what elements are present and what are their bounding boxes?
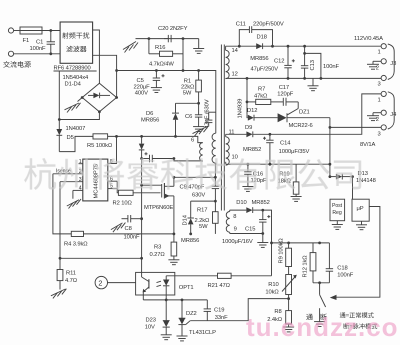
label mode on	[340, 312, 374, 318]
capacitor C17	[283, 98, 298, 106]
svg-text:R5 100kΩ: R5 100kΩ	[87, 143, 113, 149]
wire pin9	[230, 233, 263, 235]
resistor R9	[286, 243, 292, 275]
svg-text:tu.cndzz.com: tu.cndzz.com	[246, 312, 400, 342]
wire	[14, 30, 20, 32]
svg-text:R4 3.9kΩ: R4 3.9kΩ	[64, 242, 88, 248]
svg-text:MR856: MR856	[141, 117, 159, 123]
svg-text:2: 2	[376, 66, 379, 72]
svg-text:R10: R10	[268, 282, 278, 288]
capacitor C11	[239, 26, 272, 46]
node vcc bottom	[140, 257, 143, 260]
svg-text:4.7Ω: 4.7Ω	[65, 278, 78, 284]
connector J4 pin2 ground	[367, 110, 386, 123]
capacitor C12	[284, 46, 295, 78]
svg-text:D1-D4: D1-D4	[65, 82, 82, 88]
wire box top out	[93, 30, 100, 83]
optocoupler OPT1	[136, 272, 175, 300]
diode D14 MR856	[188, 201, 216, 234]
connector J4 pin1	[378, 91, 387, 103]
svg-text:R17: R17	[197, 208, 207, 214]
svg-text:1: 1	[378, 98, 381, 104]
svg-text:100nF: 100nF	[323, 64, 339, 70]
svg-text:3: 3	[79, 177, 82, 183]
connector J3 pin1	[378, 44, 387, 56]
transformer winding 8-9	[226, 210, 229, 233]
svg-text:4: 4	[79, 186, 82, 192]
wire opto bottom bus	[143, 299, 207, 301]
wire 12 rail	[226, 77, 381, 79]
ground R3	[168, 260, 179, 265]
diode D10 MR852	[230, 207, 263, 213]
diode D13 1N4148	[330, 174, 353, 180]
svg-text:C18: C18	[337, 266, 347, 272]
svg-text:F1: F1	[23, 38, 30, 44]
svg-text:R9 100kΩ: R9 100kΩ	[279, 238, 285, 264]
AC input terminal top	[8, 28, 13, 33]
svg-text:C5: C5	[137, 78, 144, 84]
svg-text:5W: 5W	[183, 90, 192, 96]
node divider tap	[287, 297, 290, 300]
svg-text:J3: J3	[390, 61, 396, 67]
wire	[42, 30, 60, 32]
svg-text:33nF: 33nF	[215, 315, 228, 321]
ground Post Reg	[332, 221, 343, 230]
wire main DC rail	[117, 71, 216, 134]
svg-text:10V: 10V	[145, 324, 155, 330]
ground C6	[193, 127, 204, 132]
node C2 right	[173, 157, 176, 160]
resistor R4	[71, 231, 174, 236]
capacitor C16	[244, 164, 251, 186]
svg-text:C6: C6	[185, 114, 192, 120]
svg-text:D10: D10	[236, 200, 246, 206]
node C14 top	[269, 133, 272, 136]
ground DZ2	[177, 336, 188, 341]
capacitor C1	[47, 31, 55, 54]
wire vcc rail	[141, 159, 143, 273]
wire box lower out	[93, 55, 117, 97]
transformer winding aux 6	[200, 143, 203, 162]
svg-text:μP: μP	[357, 206, 364, 212]
svg-text:1N5404x4: 1N5404x4	[63, 75, 90, 81]
node jog	[303, 52, 306, 55]
resistor R1	[196, 71, 202, 104]
wire aux bottom	[174, 159, 203, 161]
ground snubber right	[193, 39, 204, 54]
wire jog	[305, 53, 321, 78]
node D13 right	[351, 175, 354, 178]
svg-text:100nF: 100nF	[124, 234, 140, 240]
capacitor C9	[212, 186, 219, 212]
ground C5	[151, 88, 162, 93]
node D6 rail	[174, 135, 177, 138]
svg-text:MR856: MR856	[181, 238, 199, 244]
svg-text:Reg: Reg	[332, 210, 341, 216]
svg-text:9: 9	[234, 226, 237, 232]
node C15 bottom	[261, 232, 264, 235]
wire D5 to R5	[59, 136, 93, 151]
resistor R19	[293, 164, 299, 196]
node clamp mid	[214, 200, 217, 203]
node D13 left	[329, 175, 332, 178]
pin 3 stub	[60, 177, 83, 183]
svg-text:47nF /630V: 47nF /630V	[205, 99, 211, 128]
svg-text:TL431CLP: TL431CLP	[189, 330, 216, 336]
wire drain to clamp	[174, 176, 216, 178]
label switch on	[306, 314, 313, 320]
IC U1 MC44608P75	[83, 159, 108, 201]
svg-text:8: 8	[233, 214, 236, 220]
svg-text:Isense: Isense	[56, 169, 71, 175]
ground R19	[291, 197, 302, 202]
node 8V tee	[270, 242, 273, 245]
pin 4 ground	[73, 186, 83, 199]
svg-text:C11: C11	[236, 22, 246, 28]
svg-text:J4: J4	[390, 112, 397, 118]
wire 8V to J4 pin1	[270, 94, 381, 134]
node C6 top	[197, 102, 200, 105]
node R12 tee	[318, 242, 321, 245]
svg-text:100nF: 100nF	[337, 273, 353, 279]
node bridge left	[81, 96, 84, 99]
svg-text:10kΩ: 10kΩ	[265, 289, 279, 295]
diode D7	[139, 136, 145, 158]
node bridge right	[115, 96, 118, 99]
svg-text:MR852: MR852	[243, 147, 261, 153]
node D14 bottom	[189, 233, 192, 236]
pin 1 stub	[79, 159, 83, 165]
bridge rectifier D1-D4	[82, 83, 116, 112]
wire rail 136	[108, 136, 203, 142]
svg-text:3: 3	[378, 132, 381, 138]
resistor R5	[93, 134, 108, 139]
wire snubber top	[136, 38, 199, 40]
ground C15	[257, 234, 268, 248]
RF filter box U-RF	[60, 22, 93, 63]
capacitor C14	[263, 134, 274, 164]
wire pin8	[108, 136, 117, 163]
ground R8	[283, 327, 294, 332]
capacitor C20	[164, 35, 171, 42]
svg-text:120pF: 120pF	[277, 91, 293, 97]
svg-text:1N4007: 1N4007	[66, 126, 86, 132]
svg-text:12: 12	[232, 72, 238, 78]
node C5	[155, 69, 158, 72]
svg-text:Post: Post	[332, 203, 343, 209]
capacitor C5	[153, 71, 165, 88]
node D7 top	[140, 135, 143, 138]
svg-text:C19: C19	[214, 307, 224, 313]
ground switch	[314, 314, 325, 327]
wire to uP	[352, 177, 354, 200]
svg-text:D14: D14	[183, 214, 189, 225]
fuse F1	[20, 27, 42, 34]
svg-text:OPT1: OPT1	[179, 285, 194, 291]
node switch top	[318, 281, 321, 284]
zener D23	[163, 300, 170, 335]
node C14 bottom	[269, 163, 272, 166]
svg-text:MR856: MR856	[250, 56, 268, 62]
node drain	[173, 176, 176, 179]
svg-text:47μF/250V: 47μF/250V	[251, 66, 279, 72]
svg-text:2: 2	[98, 279, 102, 288]
svg-text:400V: 400V	[135, 91, 148, 97]
chassis ground at bridge	[65, 98, 83, 113]
svg-text:C12: C12	[274, 59, 284, 65]
svg-text:47kΩ: 47kΩ	[254, 94, 268, 100]
svg-text:C15: C15	[245, 226, 255, 232]
svg-text:3: 3	[378, 82, 381, 88]
wire mode bottom	[313, 282, 329, 284]
node R16 rail	[182, 69, 185, 72]
label mode off	[344, 323, 378, 329]
chassis ground C8	[111, 223, 126, 233]
wire 16V return rail	[226, 163, 330, 165]
svg-text:8V/1A: 8V/1A	[360, 142, 376, 148]
node R11	[59, 257, 62, 260]
transformer winding 14-12	[226, 46, 230, 79]
svg-text:100nF: 100nF	[30, 46, 46, 52]
label AC source	[3, 61, 30, 68]
node C16	[247, 163, 250, 166]
wire D6 to R1	[176, 102, 199, 104]
switch SW mode	[320, 283, 326, 314]
node C1 bottom	[49, 52, 52, 55]
chassis ground R11	[51, 289, 67, 299]
label switch off	[321, 314, 327, 320]
svg-text:C17: C17	[279, 85, 289, 91]
wire gate aux	[142, 184, 162, 186]
svg-text:DZ2: DZ2	[186, 311, 197, 317]
svg-text:6: 6	[191, 138, 194, 144]
svg-text:1: 1	[378, 50, 381, 56]
wire	[14, 53, 61, 55]
svg-text:1: 1	[79, 159, 82, 165]
label RF6 47288900	[54, 66, 97, 72]
svg-text:630V: 630V	[192, 193, 205, 199]
wire ref divider	[190, 299, 288, 321]
wire to J4 pin3	[330, 118, 381, 177]
node jog bottom	[320, 77, 323, 80]
capacitor C18	[326, 243, 333, 283]
wire pin3 down	[59, 182, 61, 259]
svg-text:0.27Ω: 0.27Ω	[150, 252, 166, 258]
node D5 top	[58, 118, 61, 121]
snubber chassis ground	[123, 42, 138, 53]
opto LED	[157, 276, 170, 300]
resistor R8	[286, 299, 292, 327]
wire box bottom out	[58, 72, 60, 120]
svg-text:R11: R11	[66, 270, 76, 276]
box uP	[352, 199, 369, 221]
diode D5 1N4007	[56, 120, 62, 152]
pin 6 stub	[108, 176, 117, 182]
svg-text:4.7kΩ/4W: 4.7kΩ/4W	[149, 62, 174, 68]
svg-text:R3: R3	[154, 245, 161, 251]
node R9 top	[287, 242, 290, 245]
capacitor C7 47nF	[205, 112, 216, 126]
connector J3 pin3	[378, 75, 387, 87]
node C1 top	[49, 29, 52, 32]
svg-text:C1: C1	[36, 40, 43, 46]
svg-text:C14: C14	[280, 141, 291, 147]
thyristor DZ1 MCR22-6	[278, 102, 330, 122]
svg-text:220μF: 220μF	[134, 84, 151, 90]
transformer winding primary	[212, 133, 216, 165]
node C12 top	[287, 45, 290, 48]
svg-text:R16: R16	[155, 45, 165, 51]
svg-text:D9: D9	[245, 125, 252, 131]
node pin8 rail	[115, 135, 118, 138]
transformer core	[221, 45, 224, 211]
connector J4 pin3	[378, 125, 387, 138]
svg-text:C20 2N2FY: C20 2N2FY	[158, 26, 188, 32]
resistor R17	[213, 212, 219, 234]
svg-text:MTP6N60E: MTP6N60E	[144, 205, 173, 211]
svg-text:1000μF/16V: 1000μF/16V	[222, 239, 253, 245]
wire bottom left bus	[60, 257, 142, 259]
potentiometer R10	[282, 275, 297, 299]
node rail left	[115, 69, 118, 72]
ground C16	[242, 187, 253, 192]
svg-text:MR852: MR852	[252, 200, 270, 206]
svg-text:MCR22-6: MCR22-6	[289, 123, 313, 129]
resistor R21	[166, 273, 271, 278]
svg-text:R21 47Ω: R21 47Ω	[208, 283, 231, 289]
node C11 right	[271, 45, 274, 48]
svg-text:1N4939: 1N4939	[238, 99, 244, 119]
box Post Reg	[330, 199, 345, 221]
node C12 bottom	[287, 77, 290, 80]
svg-text:R7: R7	[258, 86, 265, 92]
svg-text:10: 10	[232, 155, 238, 161]
pin 2 Isense	[53, 169, 83, 175]
node C11 left	[238, 45, 241, 48]
diode D6 MR856	[172, 103, 179, 136]
node D23	[165, 299, 168, 302]
svg-text:220pF/500V: 220pF/500V	[253, 21, 284, 27]
bracket J4	[388, 92, 394, 129]
node clamp top	[214, 176, 217, 179]
chassis ground C7	[193, 127, 209, 137]
shunt reg DZ2 TL431	[178, 300, 190, 336]
chassis ground pin4	[67, 199, 81, 209]
node C2 left	[140, 157, 143, 160]
node rail corner	[329, 163, 332, 166]
node R7 tap	[246, 101, 249, 104]
svg-text:D5: D5	[67, 135, 74, 141]
ground C13	[308, 78, 319, 90]
wire 8Vaux feed	[263, 210, 272, 276]
resistor R2	[118, 190, 160, 195]
diode D9 MR852	[226, 131, 270, 137]
capacitor C2	[142, 152, 174, 162]
wire bridge bottom	[59, 112, 99, 120]
svg-text:C13: C13	[310, 60, 316, 70]
node source	[173, 233, 176, 236]
node C15 top	[261, 209, 264, 212]
svg-text:112V/0.45A: 112V/0.45A	[354, 36, 383, 42]
node C8	[140, 217, 143, 220]
resistor R11	[57, 258, 63, 289]
node DZ2	[181, 299, 184, 302]
MOSFET Q1 MTP6N60E	[162, 177, 174, 234]
AC input terminal bottom	[8, 51, 13, 56]
svg-text:C8: C8	[125, 226, 132, 232]
node C13 top	[303, 45, 306, 48]
capacitor C15	[259, 210, 270, 233]
wire 112V rail	[226, 45, 381, 47]
diode D12	[247, 115, 278, 121]
svg-text:D6: D6	[146, 111, 153, 117]
node J4 pin3	[329, 126, 332, 129]
net label 2	[95, 276, 136, 288]
wire D12 branch	[246, 78, 248, 115]
node snubber right	[182, 37, 185, 40]
node D12 top	[246, 77, 249, 80]
node bridge bottom	[98, 110, 101, 113]
wire primary bottom to clamp	[214, 163, 216, 186]
svg-text:R2 10Ω: R2 10Ω	[113, 200, 133, 206]
ground uP	[356, 221, 367, 230]
wire Isense to R4	[53, 174, 71, 234]
resistor R3	[171, 234, 177, 260]
node gate aux	[140, 184, 143, 187]
capacitor C8	[122, 215, 142, 222]
svg-text:D18: D18	[257, 35, 267, 41]
svg-text:14: 14	[232, 48, 239, 54]
arrow head	[330, 295, 337, 300]
watermark gray	[24, 158, 361, 190]
wire R16 to rail	[182, 39, 184, 71]
svg-text:5W: 5W	[199, 224, 208, 230]
svg-text:R12 1kΩ: R12 1kΩ	[303, 255, 309, 278]
pin 5 stub	[108, 184, 117, 190]
ground D23	[161, 335, 172, 340]
capacitor C6	[195, 103, 202, 126]
wire mode rail	[272, 242, 330, 244]
svg-text:D23: D23	[146, 317, 156, 323]
node C13 bottom	[303, 77, 306, 80]
transformer winding 11-10	[226, 134, 230, 165]
bracket J3	[388, 44, 394, 80]
resistor R7	[247, 99, 283, 104]
node R1	[197, 69, 200, 72]
svg-text:1000μF/35V: 1000μF/35V	[279, 149, 310, 155]
connector J3 pin2 ground	[367, 59, 386, 72]
node snubber left	[148, 37, 151, 40]
resistor R12	[310, 243, 316, 283]
svg-text:D12: D12	[247, 108, 257, 114]
wire uP to switch arrow	[336, 207, 380, 298]
capacitor C19	[204, 300, 211, 321]
diode D18 MR856	[256, 43, 262, 49]
wire pins to R2	[117, 181, 118, 193]
capacitor C13	[301, 46, 308, 78]
resistor R16	[149, 39, 183, 57]
svg-text:2: 2	[376, 117, 379, 123]
svg-text:DZ1: DZ1	[299, 110, 310, 116]
